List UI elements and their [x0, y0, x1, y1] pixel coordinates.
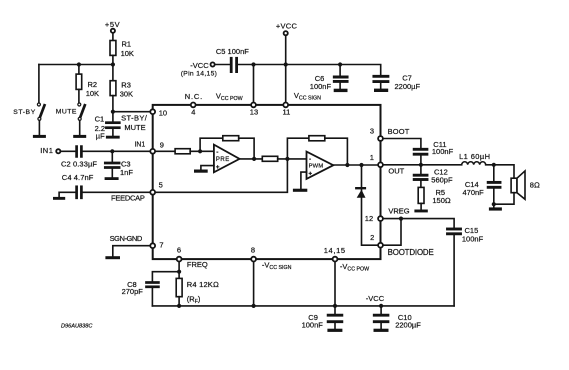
- svg-text:8: 8: [251, 245, 255, 254]
- ground PRE: [194, 170, 208, 173]
- capacitor C4: [77, 187, 82, 198]
- wire FEEDCAP internal: [153, 159, 288, 192]
- ground PWM: [293, 189, 307, 192]
- terminal IN1: [56, 149, 60, 153]
- pin 4: [191, 103, 196, 108]
- capacitor C15: [448, 229, 461, 234]
- wire left rail y=64.5: [39, 64, 113, 66]
- wire C2 to pin9: [83, 150, 153, 152]
- pin 5: [150, 190, 155, 195]
- wire pin14,15 drop: [334, 259, 336, 306]
- svg-text:FEEDCAP: FEEDCAP: [111, 194, 145, 203]
- capacitor C11: [414, 149, 427, 154]
- wire OUT: [381, 164, 462, 166]
- terminal +VCC: [284, 31, 288, 35]
- pin 2: [378, 243, 383, 248]
- resistor R2: [76, 74, 82, 89]
- svg-text:+: +: [216, 164, 220, 171]
- svg-text:5: 5: [159, 180, 163, 189]
- ground C7: [374, 89, 388, 92]
- svg-text:C15: C15: [465, 226, 479, 235]
- svg-text:11: 11: [283, 107, 291, 116]
- svg-text:BOOTDIODE: BOOTDIODE: [388, 248, 434, 257]
- svg-text:-VCC: -VCC: [366, 294, 385, 303]
- op-amp PRE: [214, 145, 240, 173]
- node R4/rail: [177, 304, 181, 308]
- svg-text:D96AU838C: D96AU838C: [61, 323, 93, 329]
- svg-text:9: 9: [160, 140, 164, 149]
- node pin8/rail: [252, 304, 256, 308]
- wire bootdiode link: [381, 219, 402, 246]
- wire +VCC drop: [285, 36, 287, 105]
- resistor R5: [418, 187, 424, 203]
- svg-text:(Pin 14,15): (Pin 14,15): [181, 70, 218, 77]
- svg-text:100nF: 100nF: [302, 321, 324, 330]
- node PWM input junction: [285, 157, 289, 161]
- svg-text:12: 12: [365, 214, 373, 223]
- resistor PWM feedback: [309, 136, 325, 141]
- svg-text:-VCC: -VCC: [190, 61, 209, 70]
- ground C10: [374, 329, 389, 332]
- wire pin13 drop: [253, 65, 255, 105]
- svg-text:2: 2: [370, 233, 374, 242]
- svg-text:ST-BY: ST-BY: [13, 109, 36, 116]
- svg-text:10K: 10K: [121, 49, 134, 58]
- ground R5: [414, 210, 427, 213]
- node feedback/out: [345, 163, 349, 167]
- pin 7: [150, 243, 155, 248]
- pin 8: [251, 257, 256, 262]
- wire pin6 drop: [178, 259, 180, 272]
- ground C6: [334, 89, 348, 92]
- svg-text:C1: C1: [95, 115, 105, 124]
- node rail x285.7: [284, 62, 288, 66]
- svg-text:270pF: 270pF: [122, 287, 144, 296]
- terminal -VCC pin14,15: [211, 62, 215, 66]
- svg-text:MUTE: MUTE: [124, 123, 145, 132]
- capacitor C10: [380, 306, 382, 314]
- node pin14,15/rail: [333, 304, 337, 308]
- svg-text:100nF: 100nF: [310, 82, 332, 91]
- resistor R4: [178, 272, 180, 279]
- svg-text:560pF: 560pF: [431, 176, 453, 185]
- svg-text:2200µF: 2200µF: [395, 321, 421, 330]
- resistor R3: [110, 81, 116, 96]
- node C10/rail: [379, 304, 383, 308]
- wire pin8 drop: [253, 259, 255, 306]
- svg-text:+5V: +5V: [105, 20, 120, 29]
- node OUT/C14: [492, 163, 496, 167]
- switch MUTE: [78, 103, 85, 135]
- svg-text:1: 1: [370, 153, 374, 162]
- switch ST-BY: [37, 103, 44, 135]
- capacitor C2: [77, 147, 82, 157]
- svg-text:10K: 10K: [86, 89, 99, 98]
- ground ST-BY: [33, 135, 46, 138]
- svg-text:VCC POW: VCC POW: [216, 91, 243, 102]
- svg-text:OUT: OUT: [388, 167, 404, 176]
- svg-text:4: 4: [191, 107, 195, 116]
- node R1/rail junction: [111, 62, 115, 66]
- node VREG/bootdiode: [399, 217, 403, 221]
- svg-text:MUTE: MUTE: [56, 109, 77, 116]
- wire SGN-GND: [113, 246, 153, 256]
- svg-text:100nF: 100nF: [432, 147, 454, 156]
- capacitor C12: [420, 165, 422, 174]
- ground C4: [53, 197, 65, 200]
- svg-text:VREG: VREG: [388, 207, 409, 216]
- svg-text:IN1: IN1: [40, 146, 53, 155]
- pin 14,15: [333, 257, 338, 262]
- pin 10: [150, 109, 155, 114]
- node rail x253.5: [251, 62, 255, 66]
- svg-text:PRE: PRE: [216, 157, 230, 163]
- svg-text:2200µF: 2200µF: [395, 82, 421, 91]
- svg-text:8Ω: 8Ω: [530, 180, 540, 189]
- capacitor C14: [493, 165, 495, 181]
- node FREQ branch: [177, 270, 181, 274]
- svg-text:30K: 30K: [120, 90, 133, 99]
- node diode/out: [359, 163, 363, 167]
- wire R2 bottom: [78, 89, 80, 103]
- node C3 junction: [110, 149, 114, 153]
- svg-text:ST-BY/: ST-BY/: [121, 114, 148, 123]
- ground MUTE: [73, 135, 86, 138]
- svg-text:+VCC: +VCC: [276, 21, 298, 30]
- svg-text:FREQ: FREQ: [187, 260, 208, 269]
- resistor interstage: [262, 156, 277, 161]
- node C14/speaker: [492, 202, 496, 206]
- wire PWM out to pin1: [333, 164, 380, 166]
- node R2 top junction: [77, 62, 81, 66]
- wire top VCC rail: [238, 65, 380, 76]
- wire ST-BY drop: [38, 65, 40, 103]
- wire R2 top: [78, 65, 80, 75]
- capacitor C6: [339, 65, 341, 76]
- speaker: [494, 171, 525, 204]
- wire PRE out: [240, 158, 263, 160]
- wire pin9 to input resistor: [153, 150, 175, 152]
- wire PWM feedback loop: [287, 138, 309, 159]
- wire diode branch: [362, 165, 381, 245]
- svg-text:3: 3: [370, 126, 374, 135]
- svg-text:IN1: IN1: [135, 142, 146, 149]
- pin 11: [283, 103, 288, 108]
- wire PRE plus to ground: [201, 166, 214, 170]
- wire R3 to C1: [112, 96, 114, 122]
- node OUT/C11: [419, 163, 423, 167]
- node rail C6: [338, 62, 342, 66]
- wire pin10 feed: [113, 111, 153, 113]
- terminal +5V: [111, 29, 115, 33]
- capacitor C3: [111, 151, 113, 161]
- pin 6: [177, 257, 182, 262]
- wire to PRE minus: [190, 150, 214, 152]
- svg-text:100nF: 100nF: [462, 235, 484, 244]
- svg-text:PWM: PWM: [309, 164, 324, 170]
- wire C8 branch: [152, 272, 179, 281]
- pin 12: [378, 216, 383, 221]
- svg-text:R1: R1: [122, 40, 132, 49]
- svg-text:-: -: [309, 156, 311, 163]
- svg-text:C4 4.7nF: C4 4.7nF: [62, 173, 94, 182]
- svg-text:R2: R2: [88, 80, 98, 89]
- svg-text:470nF: 470nF: [463, 188, 485, 197]
- svg-text:N.C.: N.C.: [185, 92, 203, 101]
- op-amp PWM: [307, 152, 334, 179]
- wire R1 to rail: [112, 55, 114, 80]
- svg-text:-VCC POW: -VCC POW: [340, 262, 369, 273]
- wire -VCC rail: [152, 305, 454, 307]
- svg-text:L1 60µH: L1 60µH: [459, 152, 490, 161]
- node PRE input junction: [198, 149, 202, 153]
- svg-text:C5 100nF: C5 100nF: [216, 47, 249, 56]
- capacitor C1: [106, 123, 119, 128]
- ground SGN-GND: [105, 256, 120, 259]
- capacitor C8: [147, 283, 159, 287]
- node PRE out junction: [252, 157, 256, 161]
- wire to PWM minus: [278, 158, 307, 160]
- wire +5V drop: [112, 33, 114, 40]
- svg-text:14,15: 14,15: [324, 246, 346, 255]
- wire PWM plus to ground: [301, 172, 307, 189]
- resistor R1: [110, 41, 116, 56]
- wire PRE feedback loop: [200, 138, 223, 151]
- svg-text:R3: R3: [121, 81, 131, 90]
- wire IN1 to C2: [61, 150, 75, 152]
- svg-text:-VCC SIGN: -VCC SIGN: [262, 260, 292, 271]
- resistor PRE input: [175, 149, 190, 154]
- capacitor C5: [231, 58, 236, 71]
- svg-text:SGN-GND: SGN-GND: [110, 234, 143, 243]
- svg-text:7: 7: [159, 241, 163, 250]
- wire PWM feedback right leg: [325, 138, 348, 165]
- ground C14: [489, 207, 502, 210]
- IC box U1: [153, 105, 381, 259]
- pin 3: [378, 136, 383, 141]
- pin 9: [150, 149, 155, 154]
- svg-text:10: 10: [159, 108, 167, 117]
- pin 1: [378, 162, 383, 167]
- svg-text:13: 13: [250, 107, 258, 116]
- svg-text:C2 0.33µF: C2 0.33µF: [61, 160, 97, 169]
- pin 13: [251, 103, 256, 108]
- resistor PRE feedback: [223, 136, 239, 141]
- ground C1: [106, 136, 120, 139]
- ground C3: [105, 177, 119, 180]
- svg-text:C7: C7: [402, 73, 412, 82]
- svg-text:BOOT: BOOT: [388, 127, 410, 136]
- svg-text:VCC SIGN: VCC SIGN: [294, 91, 321, 102]
- svg-text:R4 12KΩ: R4 12KΩ: [187, 280, 219, 289]
- diode D1: [356, 188, 365, 198]
- svg-text:150Ω: 150Ω: [432, 196, 451, 205]
- wire VREG: [381, 219, 455, 228]
- ground C9: [327, 329, 342, 332]
- svg-text:(RF): (RF): [187, 294, 201, 304]
- capacitor C9: [334, 306, 336, 314]
- svg-text:6: 6: [177, 245, 181, 254]
- wire BOOT: [381, 139, 421, 148]
- capacitor C7: [374, 76, 388, 81]
- inductor L1: [462, 162, 486, 165]
- node C1 junction: [111, 110, 115, 114]
- wire PRE feedback right leg: [239, 138, 254, 159]
- svg-text:µF: µF: [96, 132, 105, 141]
- wire -VCC to C5: [215, 64, 229, 66]
- svg-text:1nF: 1nF: [120, 168, 133, 177]
- svg-text:-: -: [216, 149, 218, 156]
- wire C4 to pin5: [83, 191, 153, 193]
- svg-text:+: +: [308, 170, 312, 177]
